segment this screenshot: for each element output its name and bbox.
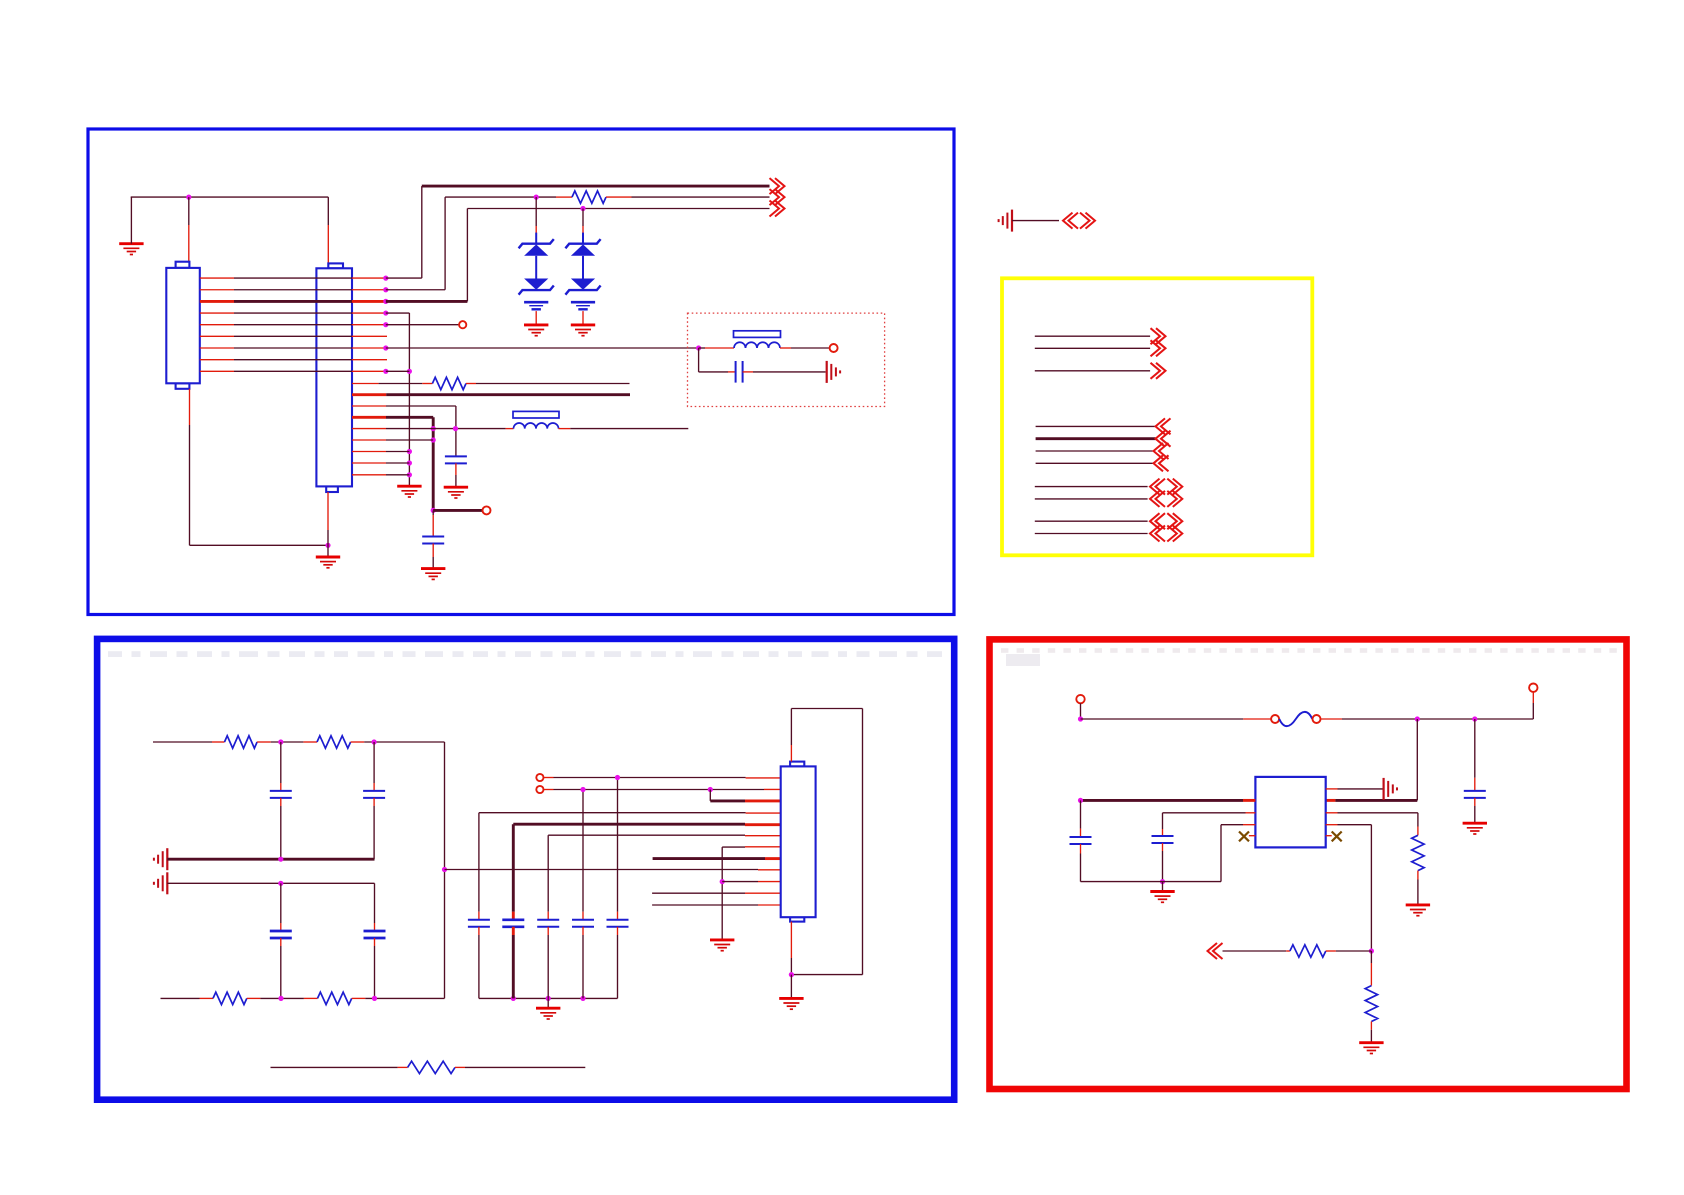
wire (thick) bbox=[710, 799, 745, 802]
wire (thick) bbox=[1243, 799, 1255, 802]
no-connect X bbox=[1249, 835, 1256, 837]
junction bbox=[186, 195, 191, 200]
wire GND net bbox=[131, 196, 329, 198]
junction bbox=[431, 437, 436, 442]
dotted outline (filter) bbox=[688, 313, 885, 406]
wire bbox=[386, 312, 410, 314]
junction bbox=[383, 287, 388, 292]
off-page arrow bbox=[1154, 455, 1169, 471]
wire bbox=[547, 998, 549, 1008]
wire bbox=[790, 745, 792, 762]
wire bbox=[1326, 788, 1338, 790]
wire J1 pin4 to J2 bbox=[200, 312, 234, 314]
wire bbox=[1474, 798, 1476, 806]
wire bus (thick) bbox=[422, 185, 770, 188]
wire bbox=[1326, 824, 1338, 826]
wire bbox=[455, 1066, 465, 1068]
wire bbox=[1246, 812, 1256, 814]
wire J1 pin3 to J2 (thick) bbox=[200, 300, 234, 303]
wire bbox=[1532, 703, 1534, 719]
wire bbox=[280, 742, 282, 783]
highlight box (yellow) bbox=[1002, 278, 1312, 555]
wire bbox=[721, 847, 723, 940]
junction bbox=[383, 310, 388, 315]
wire bbox=[1370, 951, 1372, 963]
wire bbox=[386, 324, 459, 326]
wire bbox=[386, 277, 422, 279]
wire bbox=[1326, 812, 1338, 814]
wire bbox=[699, 347, 705, 349]
junction bbox=[383, 345, 388, 350]
resistor R9 bbox=[1290, 945, 1326, 957]
wire J2 pin bbox=[352, 383, 379, 385]
wire J1 pin7 to J2 bbox=[200, 347, 234, 349]
wire bbox=[709, 790, 711, 801]
capacitor C6 bbox=[270, 931, 292, 938]
wire bbox=[544, 789, 554, 791]
capacitor C5 bbox=[363, 791, 385, 798]
wire bbox=[743, 371, 753, 373]
capacitor C10 bbox=[537, 920, 559, 927]
inductor/bead FB2 bbox=[514, 423, 559, 429]
wire bbox=[257, 741, 271, 743]
wire rail bbox=[479, 997, 618, 999]
earth ground bbox=[827, 361, 840, 383]
wire bbox=[547, 927, 549, 935]
wire J2 pin bbox=[352, 462, 386, 464]
ground bbox=[536, 1008, 560, 1019]
wire bbox=[153, 741, 212, 743]
wire bbox=[790, 922, 792, 958]
net line bbox=[1035, 498, 1148, 500]
wire bbox=[478, 813, 480, 912]
capacitor C11 bbox=[572, 920, 594, 927]
wire bbox=[1474, 719, 1476, 778]
junction bbox=[511, 996, 516, 1001]
off-page arrow bbox=[1156, 431, 1171, 447]
ground bbox=[524, 325, 548, 336]
resistor R4 bbox=[317, 736, 351, 748]
junction bbox=[372, 739, 377, 744]
capacitor C2 bbox=[445, 456, 467, 463]
schematic sheet border (top-left block) bbox=[88, 129, 954, 615]
off-page arrow pair bbox=[1150, 526, 1165, 542]
terminal bbox=[536, 786, 543, 793]
junction bbox=[1078, 716, 1083, 721]
wire bbox=[327, 197, 329, 225]
net line (thick) bbox=[1036, 437, 1156, 440]
wire bbox=[617, 778, 619, 912]
junction bbox=[580, 206, 585, 211]
wire bbox=[432, 544, 434, 558]
net line bbox=[1035, 370, 1150, 372]
wire bbox=[455, 406, 457, 456]
TVS diode D2 bbox=[565, 233, 600, 325]
wire bbox=[862, 709, 864, 975]
wire bbox=[1081, 718, 1244, 720]
wire bbox=[280, 883, 282, 923]
wire (thick) bbox=[512, 824, 515, 912]
junction bbox=[720, 879, 725, 884]
ground bbox=[316, 557, 340, 568]
wire bbox=[547, 835, 549, 912]
junction bbox=[580, 996, 585, 1001]
faded title strip bbox=[1001, 648, 1008, 653]
wire bbox=[479, 812, 746, 814]
resistor R10 bbox=[1365, 986, 1377, 1022]
wire bbox=[722, 846, 745, 848]
wire bbox=[535, 197, 537, 226]
junction bbox=[383, 276, 388, 281]
connector J1 bbox=[166, 262, 200, 389]
IC U1 bbox=[1255, 777, 1325, 848]
junction bbox=[278, 857, 283, 862]
wire bbox=[582, 927, 584, 935]
TVS diode D1 bbox=[519, 233, 554, 325]
terminal bbox=[483, 506, 491, 514]
wire bbox=[791, 708, 862, 710]
ground bbox=[397, 486, 421, 497]
wire bbox=[698, 348, 700, 372]
wire (thick) bbox=[386, 300, 468, 303]
off-page arrow bbox=[1151, 340, 1166, 356]
wire bbox=[1220, 825, 1222, 882]
junction bbox=[708, 787, 713, 792]
wire J2 pin (thick) bbox=[352, 416, 386, 419]
wire bbox=[386, 289, 445, 291]
wire (thick) bbox=[432, 417, 435, 510]
resistor R2 bbox=[432, 377, 466, 389]
wire bbox=[617, 927, 619, 935]
terminal bbox=[1076, 695, 1084, 703]
wire bbox=[582, 789, 584, 912]
junction bbox=[1369, 948, 1374, 953]
wire bbox=[445, 869, 759, 871]
wire bbox=[161, 997, 200, 999]
capacitor C15 bbox=[1070, 837, 1092, 844]
wire bbox=[652, 892, 745, 894]
wire bbox=[548, 834, 745, 836]
junction bbox=[1415, 716, 1420, 721]
ground bbox=[119, 244, 143, 255]
off-page arrow pair bbox=[1150, 513, 1165, 529]
junction bbox=[407, 472, 412, 477]
off-page arrow pair bbox=[1150, 491, 1165, 507]
wire bbox=[1417, 871, 1419, 880]
junction bbox=[696, 345, 701, 350]
wire rail bbox=[167, 882, 374, 884]
wire bbox=[303, 741, 317, 743]
wire bbox=[544, 777, 554, 779]
wire bbox=[1417, 813, 1419, 827]
capacitor C7 bbox=[364, 931, 386, 938]
wire J2 pin bbox=[352, 405, 386, 407]
resistor R1 bbox=[572, 191, 606, 203]
wire bbox=[1326, 950, 1336, 952]
off-page arrow bbox=[770, 189, 785, 205]
wire (thick) bbox=[433, 509, 482, 512]
capacitor C1 bbox=[736, 361, 743, 383]
wire rail (thick) bbox=[167, 858, 374, 861]
wire J1 pin9 to J2 bbox=[200, 370, 234, 372]
junction bbox=[580, 787, 585, 792]
ground bbox=[1150, 892, 1174, 903]
wire bbox=[1162, 843, 1164, 851]
wire bbox=[444, 197, 446, 290]
resistor R8 bbox=[1412, 835, 1424, 870]
junction bbox=[383, 299, 388, 304]
resistor R7 bbox=[408, 1061, 455, 1073]
wire bbox=[444, 742, 446, 998]
terminal bbox=[459, 321, 466, 328]
net line bbox=[1035, 520, 1148, 522]
wire bbox=[791, 974, 862, 976]
wire (thick) bbox=[653, 857, 765, 860]
resistor R3 bbox=[225, 736, 258, 748]
wire J1 pin5 to J2 bbox=[200, 324, 234, 326]
junction bbox=[278, 996, 283, 1001]
wire bbox=[386, 347, 699, 349]
wire bbox=[582, 209, 584, 227]
net line bbox=[1035, 533, 1148, 535]
wire bbox=[652, 904, 758, 906]
wire bbox=[478, 927, 480, 935]
ground bbox=[710, 940, 734, 951]
wire bbox=[1416, 719, 1418, 800]
capacitor C3 bbox=[422, 537, 444, 544]
junction bbox=[453, 426, 458, 431]
off-page arrow bbox=[1154, 443, 1169, 459]
junction bbox=[407, 369, 412, 374]
junction bbox=[1160, 879, 1165, 884]
off-page arrow pair bbox=[1150, 479, 1165, 495]
off-page arrow bbox=[770, 201, 785, 217]
ground bbox=[421, 569, 445, 580]
wire bbox=[1223, 950, 1287, 952]
wire rail bbox=[1081, 881, 1222, 883]
wire bbox=[1162, 882, 1164, 892]
terminal bbox=[1529, 684, 1537, 692]
wire bbox=[606, 196, 632, 198]
junction bbox=[278, 739, 283, 744]
wire J1 pin6 to J2 bbox=[200, 335, 234, 337]
junction bbox=[615, 775, 620, 780]
wire J2 pin bbox=[352, 439, 386, 441]
wire bbox=[408, 313, 410, 486]
junction bbox=[383, 322, 388, 327]
net line bbox=[1036, 450, 1154, 452]
net line bbox=[1035, 347, 1150, 349]
junction bbox=[1472, 716, 1477, 721]
junction bbox=[372, 996, 377, 1001]
off-page arrow bbox=[1151, 328, 1166, 344]
wire bbox=[280, 798, 282, 806]
wire bbox=[1370, 1022, 1372, 1030]
wire J2 pin bbox=[352, 474, 386, 476]
junction bbox=[789, 972, 794, 977]
wire bbox=[432, 510, 434, 515]
capacitor C13 bbox=[1464, 791, 1486, 798]
faded title strip bbox=[108, 651, 122, 657]
wire J2 pin bbox=[352, 451, 386, 453]
ground bbox=[1463, 823, 1487, 834]
wire bbox=[790, 975, 792, 999]
off-page arrow bbox=[1208, 943, 1223, 959]
wire bbox=[386, 370, 410, 372]
wire J2 pin bbox=[352, 428, 386, 430]
capacitor C14 bbox=[1152, 836, 1174, 843]
ground bbox=[444, 487, 468, 498]
wire bbox=[1080, 800, 1082, 828]
wire bbox=[445, 196, 536, 198]
junction bbox=[431, 426, 436, 431]
wire (thick) bbox=[512, 927, 515, 935]
net line bbox=[1036, 425, 1156, 427]
wire (thick) bbox=[513, 823, 745, 826]
connector J3 bbox=[781, 762, 816, 922]
wire bbox=[304, 997, 318, 999]
junction bbox=[407, 449, 412, 454]
capacitor C4 bbox=[270, 791, 292, 798]
earth ground bbox=[999, 210, 1012, 232]
terminal bbox=[830, 344, 838, 352]
wire bbox=[466, 383, 476, 385]
wire bbox=[373, 798, 375, 806]
wire bbox=[559, 428, 571, 430]
resistor R5 bbox=[213, 992, 247, 1004]
junction bbox=[534, 195, 539, 200]
wire bbox=[1080, 703, 1082, 719]
wire bbox=[130, 197, 132, 244]
earth ground bbox=[154, 848, 167, 870]
net line bbox=[1036, 462, 1154, 464]
wire bbox=[1321, 718, 1343, 720]
wire bbox=[247, 997, 261, 999]
resistor R6 bbox=[318, 992, 352, 1004]
schematic sheet border (bottom-left block) bbox=[97, 639, 954, 1100]
junction bbox=[278, 881, 283, 886]
fuse F1 bbox=[1271, 715, 1279, 723]
off-page arrow bbox=[1151, 363, 1166, 379]
no-connect X bbox=[1326, 835, 1332, 837]
wire (thick) bbox=[1326, 799, 1336, 802]
wire bbox=[722, 881, 758, 883]
junction bbox=[431, 508, 436, 513]
junction bbox=[546, 996, 551, 1001]
off-page arrow pair bbox=[1063, 213, 1078, 229]
wire bbox=[351, 741, 365, 743]
wire bbox=[189, 389, 191, 425]
off-page arrow bbox=[1156, 418, 1171, 434]
wire bbox=[280, 938, 282, 946]
net line bbox=[1035, 486, 1148, 488]
off-page arrow bbox=[770, 178, 785, 194]
capacitor C12 bbox=[607, 920, 629, 927]
wire bbox=[1243, 824, 1255, 826]
inductor/bead FB1 bbox=[734, 342, 780, 348]
capacitor C9 bbox=[502, 920, 524, 927]
ground bbox=[1359, 1043, 1383, 1054]
wire bbox=[1012, 220, 1059, 222]
junction bbox=[383, 369, 388, 374]
wire bbox=[373, 742, 375, 783]
wire bbox=[271, 1066, 398, 1068]
wire J2 pin (thick) bbox=[352, 393, 386, 396]
earth ground bbox=[154, 872, 167, 894]
wire bbox=[1162, 813, 1164, 829]
wire bbox=[352, 997, 366, 999]
ground bbox=[571, 325, 595, 336]
wire J1 pin8 to J2 bbox=[200, 359, 234, 361]
wire bbox=[467, 208, 769, 210]
wire bbox=[1080, 844, 1082, 854]
connector J2 bbox=[316, 263, 352, 492]
junction bbox=[1078, 798, 1083, 803]
wire bbox=[374, 938, 376, 946]
junction bbox=[442, 867, 447, 872]
ground bbox=[1406, 905, 1430, 916]
capacitor C8 bbox=[468, 920, 490, 927]
wire bbox=[327, 492, 329, 530]
terminal bbox=[536, 774, 543, 781]
ground bbox=[779, 998, 803, 1009]
wire bbox=[421, 186, 423, 278]
junction bbox=[325, 543, 330, 548]
wire J1 pin1 to J2 bbox=[200, 277, 234, 279]
wire J1 pin2 to J2 bbox=[200, 289, 234, 291]
net line bbox=[1035, 335, 1150, 337]
wire bbox=[455, 463, 457, 475]
wire bbox=[1370, 825, 1372, 951]
highlight box (red) bbox=[990, 639, 1627, 1089]
wire bbox=[466, 209, 468, 302]
wire bbox=[374, 883, 376, 923]
wire bbox=[780, 347, 791, 349]
wire bbox=[188, 197, 190, 225]
junction bbox=[407, 460, 412, 465]
earth ground bbox=[1384, 778, 1397, 800]
